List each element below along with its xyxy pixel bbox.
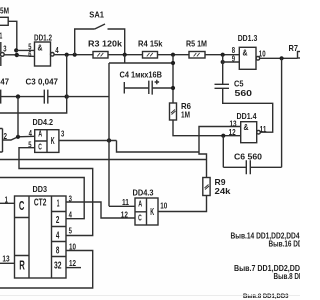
wire C2 to C3 left: [0, 96, 44, 98]
label C5 560: [234, 79, 252, 99]
svg-text:10: 10: [160, 200, 167, 210]
analog switch DD4.1 (clipped at left edge): [0, 129, 3, 153]
svg-text:C4 1мкх16В: C4 1мкх16В: [120, 70, 163, 80]
svg-text:C3 0,047: C3 0,047: [26, 76, 59, 86]
svg-text:12: 12: [69, 258, 76, 268]
svg-text:4: 4: [29, 128, 32, 138]
svg-text:Выв.16 DD: Выв.16 DD: [269, 239, 301, 248]
wire C3 right to node F: [48, 96, 67, 98]
wire R9 bottom to DD4.3 output: [158, 196, 207, 212]
counter DD3: [15, 196, 67, 278]
svg-text:1: 1: [0, 30, 2, 40]
wire DD3 pin 13 (R input): [0, 262, 15, 264]
resistor R2 (clipped at left edge): [0, 17, 8, 25]
svg-text:Выв.8 DD: Выв.8 DD: [274, 272, 301, 281]
capacitor C3: [44, 90, 48, 104]
svg-text:24k: 24k: [215, 186, 231, 196]
svg-text:C5: C5: [234, 79, 244, 89]
node A junction dots: [14, 48, 19, 57]
wire node I vertical to DD4.3 pin 11: [109, 63, 135, 206]
svg-text:C: C: [138, 214, 142, 223]
svg-text:C: C: [19, 198, 25, 213]
label R6 1M: [181, 101, 191, 120]
wire node C4-right down to R6: [172, 55, 174, 103]
wire bus B (left edge to R9 top): [0, 159, 207, 161]
capacitor C2 0,47 (clipped at left edge): [0, 90, 2, 104]
wire SA1 node down to cross wire: [124, 55, 126, 63]
svg-text:2: 2: [56, 214, 60, 226]
svg-text:0,47: 0,47: [0, 76, 9, 86]
node E junction dot: [280, 56, 284, 60]
wire C5 bottom to DD1.4 output: [223, 88, 273, 132]
svg-text:&: &: [38, 43, 43, 53]
svg-text:K: K: [150, 207, 154, 218]
wire node D to C5 top: [222, 62, 224, 84]
wire node A to DD1.2 pin 6: [17, 55, 35, 56]
note: pin 14 power text: [231, 231, 304, 281]
svg-text:DD4.3: DD4.3: [133, 187, 154, 197]
svg-text:R5 1M: R5 1M: [186, 39, 207, 49]
node G junction dot: [221, 134, 225, 138]
svg-text:DD3: DD3: [33, 184, 48, 194]
svg-text:4: 4: [55, 45, 59, 55]
svg-text:5M: 5M: [0, 6, 9, 16]
gate DD1.4: [241, 122, 261, 143]
capacitor C4 (polarized): [124, 80, 173, 95]
wire R4 to R5: [158, 54, 190, 56]
svg-text:R7: R7: [289, 43, 299, 53]
svg-text:12: 12: [229, 127, 236, 137]
wire node G down to C6 left: [222, 136, 224, 168]
resistor R6: [170, 103, 177, 120]
svg-text:K: K: [51, 136, 55, 147]
svg-text:3: 3: [3, 44, 6, 54]
wire DD3 pin 10 loop to left edge: [0, 251, 93, 289]
wire bus A (DD4.2 output to DD1.4 pin13 net): [117, 141, 200, 153]
resistor R4: [143, 52, 158, 59]
switch SA1: [75, 24, 125, 55]
node H junction dot: [16, 135, 20, 139]
svg-text:6: 6: [28, 49, 31, 59]
node C3-right junction dot: [65, 94, 69, 98]
svg-text:A: A: [38, 129, 42, 138]
svg-text:9: 9: [232, 54, 235, 64]
wire node B down to C3-right: [66, 55, 68, 97]
svg-text:4: 4: [56, 230, 60, 242]
svg-text:32: 32: [54, 260, 62, 272]
op-amp gate DD1.1 (clipped at left edge): [0, 42, 4, 66]
svg-text:C: C: [38, 142, 42, 151]
wire DD1.1 output to node A: [5, 54, 17, 56]
node D junction dots: [221, 53, 225, 64]
svg-text:1M: 1M: [181, 110, 190, 120]
svg-text:1: 1: [57, 197, 60, 209]
wire R6 bottom to DD1.4 pin 12: [173, 120, 241, 136]
svg-text:CT2: CT2: [34, 198, 47, 209]
svg-text:&: &: [244, 122, 249, 132]
node C3-left junction dot: [16, 94, 20, 98]
svg-text:5: 5: [69, 225, 72, 235]
svg-text:R4 15k: R4 15k: [138, 39, 163, 49]
svg-text:DD1.2: DD1.2: [34, 33, 52, 43]
wire DD4.1 output to DD4.2 pin A: [3, 136, 35, 140]
wire DD3 pin 3 to DD4.3 pin 12: [66, 202, 135, 218]
wire R2 output to node A: [8, 21, 17, 50]
svg-text:8: 8: [56, 245, 60, 257]
svg-text:R: R: [19, 258, 25, 273]
svg-text:Выв.8 DD1,DD3: Выв.8 DD1,DD3: [243, 294, 289, 300]
node C4-right junction dot: [171, 53, 175, 57]
capacitor C5: [215, 84, 230, 88]
wire node D to DD1.3 pin 9: [223, 55, 240, 62]
resistor R3: [93, 52, 108, 59]
wire DD1.4 pin 13 to bus A vertical: [199, 127, 241, 178]
node I junction dot: [107, 138, 111, 142]
scan artifact faint line: [0, 295, 300, 297]
resistor R9: [203, 178, 210, 196]
svg-text:DD1.3: DD1.3: [238, 33, 258, 43]
node C4-right junction dot: [171, 86, 175, 90]
svg-text:DD4.2: DD4.2: [33, 117, 54, 127]
gate DD1.2: [35, 42, 55, 66]
analog switch DD4.3: [135, 198, 158, 225]
wire C3-left node down to node H: [17, 97, 19, 137]
svg-text:A: A: [138, 200, 142, 209]
capacitor C6: [223, 160, 281, 174]
wire node A to DD1.2 pin 5: [16, 49, 34, 51]
svg-text:11: 11: [122, 197, 129, 207]
svg-text:10: 10: [259, 49, 266, 59]
wire DD4.2 output pin 3: [59, 140, 117, 142]
wire DD3 pin 4 to bus D: [0, 178, 84, 219]
label R9 24k: [215, 177, 231, 196]
wire R5 to DD1.3 pin 8: [205, 54, 239, 56]
wire node E down to C6 right: [281, 58, 283, 167]
gate DD1.3: [239, 47, 259, 69]
wire DD3 pin 1 (C input): [0, 202, 15, 204]
node C4-left junction dot: [123, 53, 127, 57]
wire DD3 pin 12 stub: [66, 267, 81, 269]
svg-text:R3 120k: R3 120k: [88, 38, 122, 48]
wire DD1.3 output to R7: [260, 57, 298, 59]
wire cross link DD4.2 output net: [109, 62, 173, 64]
svg-text:11: 11: [260, 124, 267, 134]
svg-text:DD1.4: DD1.4: [237, 111, 257, 121]
wire DD1.2 output to R3 (main top wire): [54, 54, 93, 56]
resistor R5: [189, 52, 205, 59]
svg-text:560: 560: [235, 88, 253, 98]
svg-text:13: 13: [2, 253, 9, 263]
node cross-link junction dot: [171, 61, 175, 65]
wire DD4.2 pin 5 to DD3 pin 5: [19, 148, 93, 236]
svg-text:SA1: SA1: [89, 9, 104, 19]
svg-text:&: &: [243, 48, 248, 58]
node SA1-left junction dot: [73, 53, 77, 57]
node B junction dot: [65, 53, 69, 57]
resistor R7 (clipped at right edge): [298, 52, 308, 59]
wire C3-right down and left to edge: [0, 97, 67, 113]
wire R3 to R4: [108, 54, 143, 56]
svg-text:3: 3: [61, 129, 64, 139]
analog switch DD4.2: [35, 130, 59, 153]
wire C3-right net to DD4.2 output vertical: [67, 96, 109, 98]
svg-text:C6 560: C6 560: [234, 152, 262, 162]
